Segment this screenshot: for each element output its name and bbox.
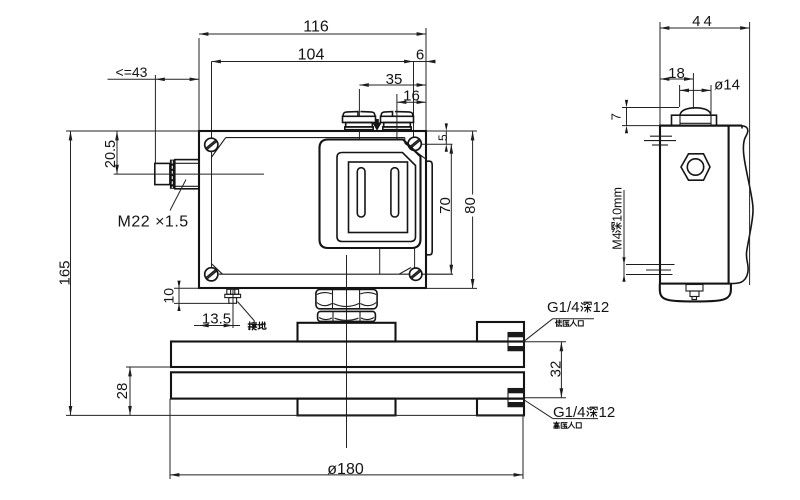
- M22 fitting tip: [155, 163, 170, 184]
- dim 104: [212, 61, 414, 63]
- cover screw bottom-left: [205, 268, 218, 281]
- label M4 deep 10mm: [623, 190, 625, 277]
- side bottom bolt: [686, 285, 703, 292]
- svg-text:35: 35: [386, 71, 403, 88]
- svg-text:7: 7: [609, 113, 624, 120]
- svg-text:70: 70: [437, 197, 454, 214]
- lid right edge below cover: [414, 248, 416, 268]
- dim 28: [126, 366, 171, 368]
- svg-text:18: 18: [668, 65, 685, 82]
- flange centerline: [346, 255, 348, 448]
- top cap fitting at x=397: [381, 112, 414, 130]
- 165 bottom extension: [66, 414, 524, 416]
- ground leader line: [238, 302, 255, 322]
- dim 13.5: [194, 325, 199, 327]
- top cap fitting at x=359: [343, 112, 376, 130]
- lid chamfer bottom-left: [211, 264, 222, 275]
- lid bottom edge + 70 extension: [219, 273, 453, 275]
- window slot right: [391, 168, 399, 217]
- svg-text:32: 32: [547, 361, 564, 378]
- window frame: [349, 162, 408, 233]
- side cap base: [672, 115, 717, 125]
- extension at fitting tip: [154, 75, 156, 163]
- svg-text:12: 12: [593, 299, 610, 316]
- 165 top extension: [66, 130, 199, 132]
- svg-text:20.5: 20.5: [103, 140, 119, 168]
- dim 116: [199, 33, 426, 35]
- flange boss top: [298, 323, 396, 342]
- svg-text:165: 165: [57, 260, 74, 285]
- leader M22: [170, 180, 186, 211]
- label G1/4 x12 high pressure inlet: [524, 400, 553, 419]
- side top plate edge: [660, 125, 742, 127]
- dim 18: [692, 73, 694, 109]
- side bracket wavy profile: [729, 126, 753, 284]
- svg-text:13.5: 13.5: [202, 311, 231, 328]
- lid chamfer top-right: [405, 143, 426, 159]
- box right edge extension up to 116 dim: [425, 28, 427, 131]
- big hex nut: [316, 289, 377, 308]
- window cover rounded square: [320, 140, 421, 249]
- M22 fitting hex nut: [175, 160, 199, 189]
- svg-text:12: 12: [599, 404, 616, 421]
- port G1/4 bottom (thread): [508, 389, 524, 407]
- svg-text:M22 ×1.5: M22 ×1.5: [118, 214, 189, 231]
- dim 35: [359, 84, 426, 86]
- flange boss bottom: [298, 399, 396, 416]
- svg-text:<=43: <=43: [116, 64, 148, 80]
- flange top plate: [171, 342, 524, 368]
- 5/80 top extension: [426, 130, 453, 132]
- svg-text:10mm: 10mm: [611, 187, 625, 222]
- cover screw bottom-right: [410, 268, 422, 280]
- dim 70: [450, 144, 452, 274]
- M22 fitting thread band: [170, 160, 175, 189]
- hinge pin bump on right edge: [427, 161, 433, 255]
- dim 32: [525, 341, 566, 343]
- svg-text:ø14: ø14: [714, 77, 740, 94]
- svg-text:80: 80: [462, 197, 479, 214]
- svg-text:16: 16: [403, 88, 420, 105]
- M22 centerline: [114, 173, 264, 175]
- screw column centerline left / 104 extension: [211, 62, 213, 275]
- lid chamfer bottom-right: [399, 268, 411, 275]
- dim 20.5: [116, 131, 118, 174]
- port block bottom right: [477, 399, 524, 416]
- screw centerline extension: [422, 143, 453, 145]
- svg-text:G1/4: G1/4: [547, 299, 580, 316]
- box left edge extension up: [198, 38, 200, 131]
- window centerline drop: [379, 248, 381, 274]
- svg-text:M4: M4: [611, 232, 625, 249]
- dim 7: [622, 107, 679, 109]
- svg-text:116: 116: [303, 19, 329, 36]
- M4 hole top: [650, 135, 672, 137]
- lid outline top edge: [226, 137, 405, 139]
- lock nut: [318, 311, 376, 321]
- svg-text:6: 6: [416, 47, 424, 64]
- port block top right: [477, 322, 524, 342]
- cover screw top-left: [205, 138, 218, 151]
- dim 16: [397, 101, 426, 103]
- svg-text:10: 10: [161, 288, 177, 304]
- side body: [660, 126, 729, 284]
- dim diameter 14: [679, 85, 681, 107]
- dim 10: [174, 287, 200, 289]
- dim 44: [659, 22, 661, 125]
- svg-text:44: 44: [692, 13, 715, 30]
- label ground (jiedi): [248, 322, 256, 330]
- dim 6: [414, 61, 434, 63]
- svg-text:G1/4: G1/4: [553, 404, 586, 421]
- label G1/4 x12 low pressure inlet: [524, 319, 553, 342]
- svg-text:28: 28: [114, 383, 131, 400]
- M4 hole bottom: [626, 264, 675, 266]
- cap centerline left / 35 extension: [358, 89, 360, 116]
- side bottom flange: [660, 284, 731, 302]
- dim diameter 180: [169, 399, 171, 479]
- ground screw extension / 13.5 line: [232, 288, 234, 328]
- svg-text:ø180: ø180: [327, 461, 364, 478]
- 104 extension right: [413, 62, 415, 139]
- housing outer box: [199, 131, 426, 288]
- window slot left: [357, 168, 365, 217]
- cap centerline right / 16 extension: [396, 94, 398, 140]
- flange bottom plate: [171, 372, 524, 398]
- svg-text:5: 5: [436, 134, 450, 141]
- svg-text:104: 104: [298, 47, 325, 64]
- hex nut on side face: [681, 154, 710, 180]
- side cap dome: [680, 108, 711, 115]
- lid chamfer top-left: [211, 138, 225, 158]
- port G1/4 top (thread): [508, 333, 524, 351]
- filled arrow between caps: [372, 119, 382, 131]
- cover screw top-right: [408, 137, 421, 150]
- 80 bottom extension: [426, 287, 477, 289]
- window bezel inner outline: [337, 153, 416, 242]
